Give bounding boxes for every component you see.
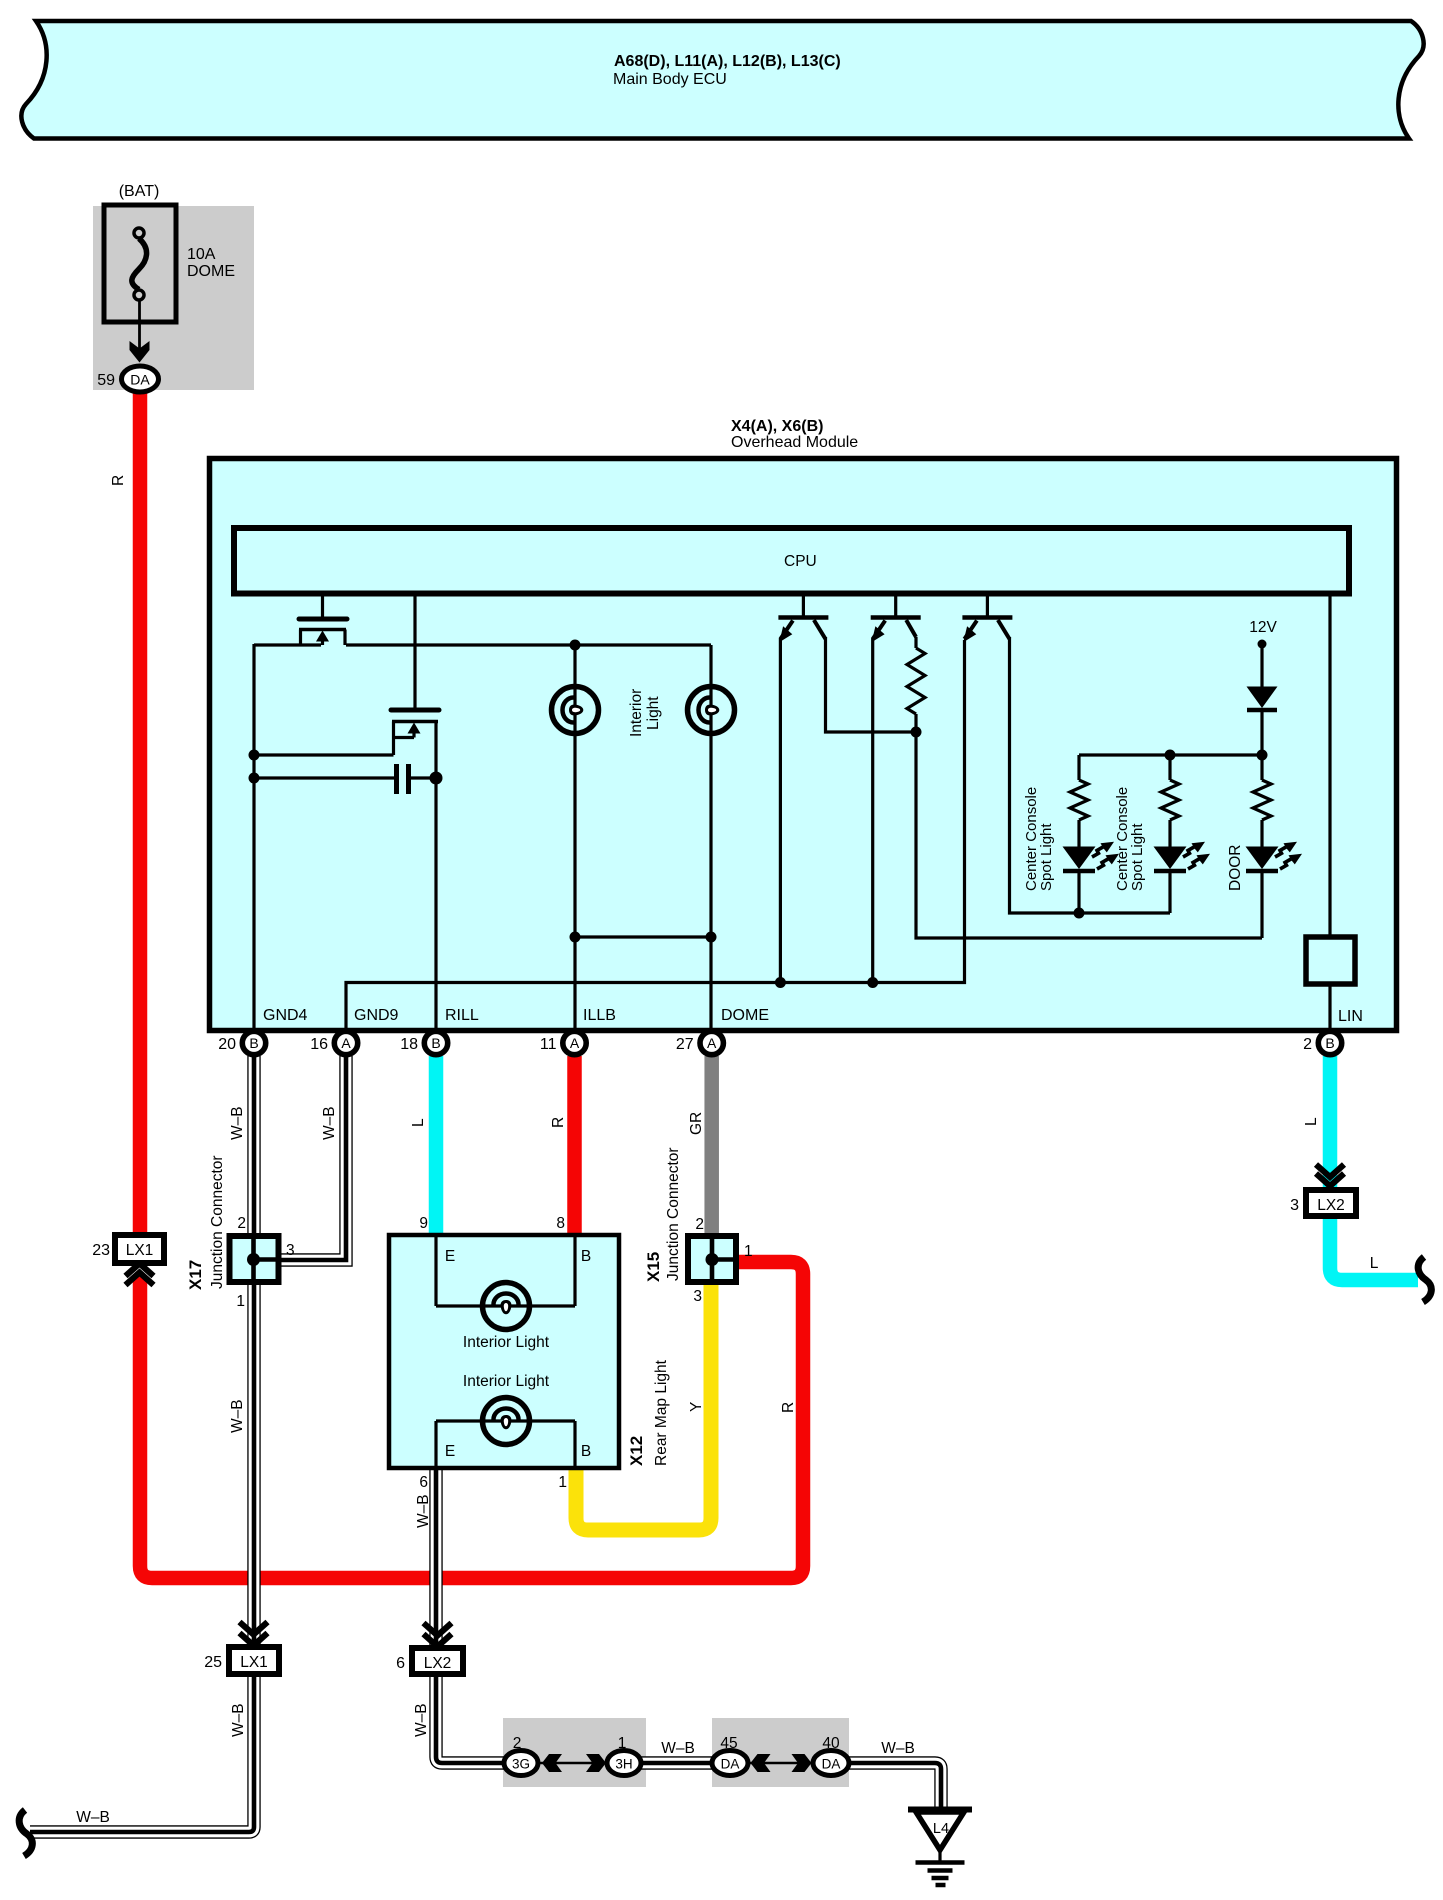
svg-text:W–B: W–B (881, 1740, 915, 1757)
svg-text:Overhead Module: Overhead Module (731, 434, 858, 451)
svg-text:GND9: GND9 (354, 1007, 399, 1024)
svg-text:40: 40 (822, 1735, 840, 1752)
svg-text:LX2: LX2 (1317, 1197, 1345, 1214)
svg-text:B: B (581, 1443, 591, 1460)
svg-text:18: 18 (400, 1036, 418, 1053)
svg-text:E: E (445, 1443, 455, 1460)
svg-text:Spot Light: Spot Light (1038, 823, 1055, 891)
svg-text:R: R (550, 1117, 567, 1128)
svg-text:1: 1 (618, 1735, 627, 1752)
svg-text:1: 1 (744, 1243, 753, 1260)
svg-text:L: L (1370, 1255, 1379, 1272)
svg-text:20: 20 (218, 1036, 236, 1053)
svg-text:16: 16 (310, 1036, 328, 1053)
svg-text:Spot Light: Spot Light (1129, 823, 1146, 891)
svg-text:Junction Connector: Junction Connector (665, 1147, 682, 1281)
svg-text:DA: DA (721, 1757, 740, 1772)
svg-text:1: 1 (558, 1474, 567, 1491)
svg-text:3: 3 (286, 1242, 295, 1259)
svg-text:B: B (1325, 1035, 1334, 1051)
svg-text:DOME: DOME (721, 1007, 769, 1024)
svg-text:2: 2 (513, 1735, 522, 1752)
svg-text:11: 11 (540, 1036, 557, 1053)
svg-text:Junction Connector: Junction Connector (209, 1155, 226, 1289)
svg-text:12V: 12V (1249, 619, 1277, 636)
svg-text:DA: DA (130, 372, 150, 388)
svg-text:W–B: W–B (415, 1494, 432, 1528)
svg-text:GR: GR (688, 1112, 705, 1135)
svg-text:E: E (445, 1248, 455, 1265)
svg-text:X15: X15 (644, 1252, 663, 1282)
svg-text:X17: X17 (186, 1260, 205, 1290)
svg-text:2: 2 (1303, 1036, 1312, 1053)
svg-text:W–B: W–B (230, 1703, 247, 1737)
svg-text:1: 1 (236, 1293, 245, 1310)
svg-text:W–B: W–B (661, 1740, 695, 1757)
svg-text:A: A (707, 1035, 717, 1051)
svg-text:27: 27 (676, 1036, 694, 1053)
svg-text:DOME: DOME (187, 263, 235, 280)
svg-text:ILLB: ILLB (583, 1007, 616, 1024)
svg-text:CPU: CPU (784, 553, 817, 570)
svg-text:L: L (1303, 1117, 1320, 1126)
svg-text:45: 45 (720, 1735, 737, 1752)
svg-text:W–B: W–B (229, 1106, 246, 1140)
svg-text:A: A (341, 1035, 351, 1051)
svg-text:X12: X12 (627, 1436, 646, 1466)
svg-text:W–B: W–B (229, 1399, 246, 1433)
svg-text:Interior Light: Interior Light (463, 1334, 550, 1351)
svg-text:Y: Y (688, 1402, 705, 1412)
svg-text:R: R (780, 1402, 797, 1413)
svg-text:L4: L4 (933, 1821, 949, 1837)
svg-text:Interior Light: Interior Light (463, 1373, 550, 1390)
svg-text:23: 23 (92, 1242, 110, 1259)
svg-text:R: R (110, 475, 127, 486)
svg-text:LIN: LIN (1338, 1008, 1363, 1025)
svg-text:A68(D), L11(A), L12(B), L13(C): A68(D), L11(A), L12(B), L13(C) (614, 53, 841, 70)
svg-text:6: 6 (419, 1474, 428, 1491)
svg-text:DA: DA (822, 1757, 841, 1772)
svg-text:DOOR: DOOR (1227, 845, 1244, 892)
svg-text:X4(A), X6(B): X4(A), X6(B) (731, 418, 823, 435)
svg-text:W–B: W–B (413, 1703, 430, 1737)
svg-text:3H: 3H (615, 1757, 632, 1772)
svg-text:LX1: LX1 (126, 1242, 154, 1259)
svg-text:8: 8 (556, 1215, 565, 1232)
svg-text:3: 3 (1290, 1197, 1299, 1214)
svg-text:2: 2 (695, 1216, 704, 1233)
svg-text:3G: 3G (512, 1757, 530, 1772)
svg-text:W–B: W–B (76, 1809, 110, 1826)
svg-text:L: L (410, 1118, 427, 1127)
svg-text:GND4: GND4 (263, 1007, 308, 1024)
svg-text:25: 25 (204, 1654, 222, 1671)
svg-text:3: 3 (693, 1288, 702, 1305)
svg-text:10A: 10A (187, 246, 216, 263)
svg-text:RILL: RILL (445, 1007, 479, 1024)
svg-text:2: 2 (237, 1215, 246, 1232)
svg-text:B: B (249, 1035, 258, 1051)
svg-text:W–B: W–B (321, 1106, 338, 1140)
svg-text:59: 59 (97, 372, 115, 389)
svg-text:LX2: LX2 (424, 1655, 452, 1672)
svg-text:Light: Light (645, 696, 662, 730)
svg-text:A: A (570, 1035, 580, 1051)
svg-text:B: B (581, 1248, 591, 1265)
svg-text:6: 6 (396, 1655, 405, 1672)
svg-text:(BAT): (BAT) (119, 183, 160, 200)
svg-text:B: B (431, 1035, 440, 1051)
svg-text:Rear Map Light: Rear Map Light (653, 1359, 670, 1466)
svg-text:LX1: LX1 (240, 1654, 268, 1671)
svg-text:Main Body ECU: Main Body ECU (613, 71, 727, 88)
svg-text:Interior: Interior (628, 689, 645, 737)
svg-text:9: 9 (419, 1215, 428, 1232)
